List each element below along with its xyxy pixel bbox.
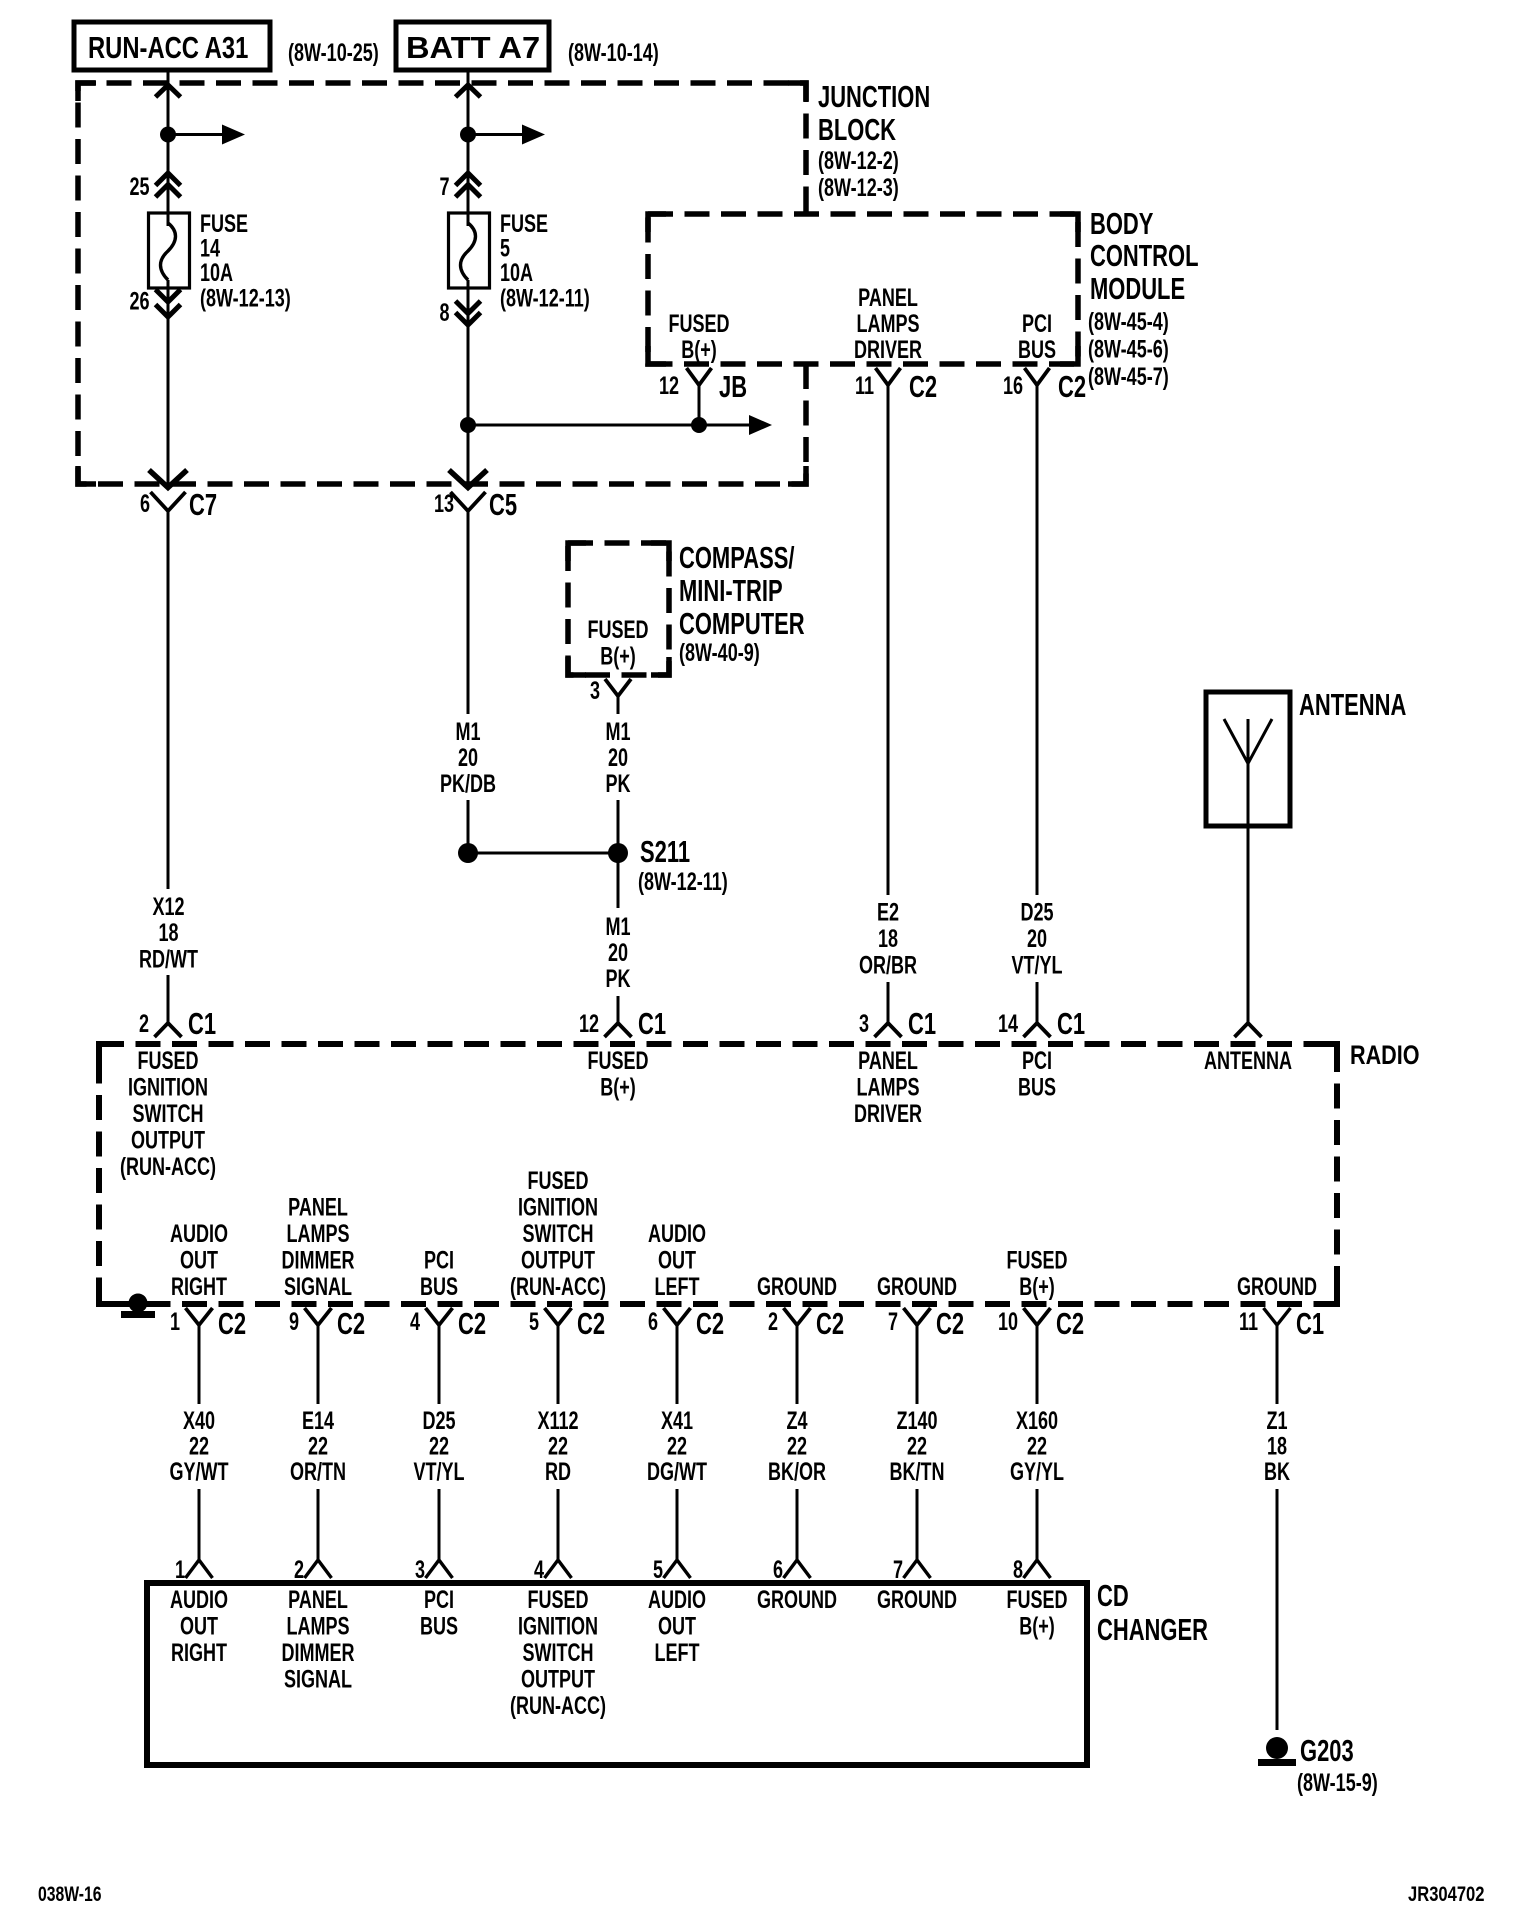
wire label X41 22 DG/WT: [647, 1406, 707, 1486]
svg-text:C7: C7: [189, 487, 217, 521]
CD pin label FUSED B(+): [1006, 1585, 1067, 1640]
svg-text:13: 13: [434, 489, 454, 518]
wire X160 22 GY/YL (upper): [1036, 1337, 1039, 1404]
svg-text:(RUN-ACC): (RUN-ACC): [120, 1152, 216, 1181]
svg-text:PANEL: PANEL: [858, 283, 918, 312]
svg-text:C2: C2: [696, 1306, 724, 1340]
svg-text:PCI: PCI: [424, 1585, 454, 1614]
connector C2 pin 16 (BCM): [1003, 368, 1086, 404]
CD pin label GROUND: [757, 1585, 837, 1614]
svg-text:10A: 10A: [200, 258, 233, 287]
svg-text:IGNITION: IGNITION: [518, 1612, 598, 1641]
connector C1 pin 12 (radio): [579, 1006, 666, 1040]
connector antenna (radio): [1235, 1023, 1262, 1037]
svg-text:7: 7: [893, 1555, 903, 1584]
svg-text:C1: C1: [188, 1006, 216, 1040]
svg-text:PCI: PCI: [424, 1246, 454, 1275]
radio pin label PCI BUS: [1018, 1046, 1056, 1101]
svg-text:12: 12: [659, 371, 679, 400]
svg-text:OUTPUT: OUTPUT: [131, 1126, 205, 1155]
svg-text:RD: RD: [545, 1457, 571, 1486]
svg-text:JB: JB: [719, 369, 747, 403]
wire X40 22 GY/WT (upper): [198, 1337, 201, 1404]
connector C1 pin 11 (radio bottom): [1239, 1306, 1324, 1340]
svg-text:DIMMER: DIMMER: [281, 1246, 354, 1275]
svg-text:3: 3: [415, 1555, 425, 1584]
wire X41 22 DG/WT (upper): [676, 1337, 679, 1404]
svg-text:BUS: BUS: [1018, 335, 1056, 364]
svg-text:OUTPUT: OUTPUT: [521, 1246, 595, 1275]
wire X160 22 GY/YL (lower): [1036, 1489, 1039, 1560]
wire between splices: [468, 852, 618, 855]
compass/mini-trip computer dashed box: [568, 543, 669, 675]
svg-text:PANEL: PANEL: [858, 1046, 918, 1075]
radio pin label PANEL LAMPS DRIVER: [854, 1046, 922, 1128]
svg-text:DRIVER: DRIVER: [854, 1099, 922, 1128]
fuse F5 label: [500, 209, 590, 312]
svg-text:6: 6: [140, 489, 150, 518]
wire label E14 22 OR/TN: [290, 1406, 346, 1486]
svg-text:8: 8: [1013, 1555, 1023, 1584]
ground G203 label: [1297, 1733, 1378, 1796]
svg-text:C5: C5: [489, 487, 517, 521]
body control module dashed box: [648, 214, 1078, 364]
svg-text:16: 16: [1003, 371, 1023, 400]
wire: [467, 135, 470, 227]
svg-text:FUSED: FUSED: [587, 615, 648, 644]
svg-text:FUSED: FUSED: [1006, 1585, 1067, 1614]
compass/mini-trip computer label: [679, 540, 805, 666]
node: S211 splice right: [608, 843, 628, 863]
connector pin 7 (CD changer): [893, 1555, 931, 1584]
svg-text:OR/TN: OR/TN: [290, 1457, 346, 1486]
svg-text:D25: D25: [1020, 898, 1053, 927]
wire label Z140 22 BK/TN: [889, 1406, 944, 1486]
svg-text:M1: M1: [455, 717, 480, 746]
CD changer label: [1097, 1578, 1208, 1646]
svg-text:B(+): B(+): [1019, 1612, 1055, 1641]
body control module label: [1088, 206, 1199, 390]
svg-text:VT/YL: VT/YL: [413, 1457, 464, 1486]
connector C1 pin 3 (radio): [859, 1006, 936, 1040]
radio pin label GROUND: [1237, 1272, 1317, 1301]
svg-text:C2: C2: [1056, 1306, 1084, 1340]
wire D25 20 VT/YL (upper): [1036, 385, 1039, 895]
svg-text:22: 22: [308, 1432, 328, 1461]
svg-text:LAMPS: LAMPS: [856, 309, 919, 338]
svg-text:ANTENNA: ANTENNA: [1204, 1046, 1292, 1075]
svg-text:OUT: OUT: [180, 1246, 218, 1275]
wire X112 22 RD (upper): [557, 1337, 560, 1404]
svg-text:AUDIO: AUDIO: [170, 1219, 228, 1248]
wire M1 20 PK below S211 (upper): [617, 853, 620, 908]
svg-text:IGNITION: IGNITION: [128, 1073, 208, 1102]
svg-text:(RUN-ACC): (RUN-ACC): [510, 1272, 606, 1301]
connector pin 5 (CD changer): [653, 1555, 691, 1584]
svg-text:X160: X160: [1016, 1406, 1058, 1435]
svg-text:RUN-ACC A31: RUN-ACC A31: [88, 30, 248, 65]
svg-text:CD: CD: [1097, 1578, 1129, 1612]
svg-text:4: 4: [410, 1307, 420, 1336]
svg-text:G203: G203: [1300, 1733, 1354, 1767]
wire label Z4 22 BK/OR: [768, 1406, 826, 1486]
reference (8W-10-25): [288, 38, 379, 67]
svg-text:RADIO: RADIO: [1350, 1041, 1420, 1071]
svg-text:BK/OR: BK/OR: [768, 1457, 826, 1486]
svg-text:6: 6: [648, 1307, 658, 1336]
svg-text:LAMPS: LAMPS: [856, 1073, 919, 1102]
wire X41 22 DG/WT (lower): [676, 1489, 679, 1560]
svg-text:3: 3: [590, 676, 600, 705]
svg-text:C1: C1: [638, 1006, 666, 1040]
svg-text:C2: C2: [458, 1306, 486, 1340]
svg-text:B(+): B(+): [1019, 1272, 1055, 1301]
svg-text:9: 9: [289, 1307, 299, 1336]
svg-text:(8W-12-11): (8W-12-11): [638, 867, 728, 896]
radio pin label FUSED IGNITION SWITCH OUTPUT (RUN-ACC): [120, 1046, 216, 1181]
junction block dashed box: [78, 83, 806, 484]
svg-text:(8W-12-2): (8W-12-2): [818, 146, 899, 175]
compass box pin label FUSED B(+): [587, 615, 648, 670]
wire E2 18 OR/BR (lower): [887, 982, 890, 1023]
svg-text:5: 5: [529, 1307, 539, 1336]
svg-text:C2: C2: [337, 1306, 365, 1340]
svg-text:COMPUTER: COMPUTER: [679, 606, 805, 640]
svg-text:S211: S211: [640, 834, 690, 868]
svg-text:LEFT: LEFT: [654, 1272, 699, 1301]
wire X40 22 GY/WT (lower): [198, 1489, 201, 1560]
svg-text:Z4: Z4: [786, 1406, 807, 1435]
svg-text:MODULE: MODULE: [1090, 271, 1185, 305]
svg-text:(8W-12-13): (8W-12-13): [200, 284, 291, 313]
connector C5 pin 13: [434, 487, 517, 523]
svg-text:D25: D25: [422, 1406, 455, 1435]
svg-text:25: 25: [129, 172, 149, 201]
fuse F5 10A: [449, 213, 490, 288]
body control module box corners: [648, 214, 1078, 364]
svg-text:PK: PK: [605, 964, 630, 993]
svg-text:20: 20: [1027, 924, 1047, 953]
svg-text:10A: 10A: [500, 258, 533, 287]
svg-text:DIMMER: DIMMER: [281, 1638, 354, 1667]
radio pin label PANEL LAMPS DIMMER SIGNAL: [281, 1193, 354, 1301]
connector pin 8 (CD changer): [1013, 1555, 1051, 1584]
svg-text:X12: X12: [152, 892, 184, 921]
svg-text:SWITCH: SWITCH: [522, 1219, 593, 1248]
wire M1 20 PK/DB (lower): [467, 800, 470, 853]
svg-text:B(+): B(+): [681, 335, 717, 364]
svg-text:BUS: BUS: [420, 1272, 458, 1301]
svg-text:20: 20: [608, 938, 628, 967]
radio pin label FUSED IGNITION SWITCH OUTPUT (RUN-ACC): [510, 1166, 606, 1301]
wire label M1 20 PK/DB: [440, 717, 496, 798]
radio dashed box: [99, 1044, 1337, 1304]
reference (8W-10-14): [568, 38, 659, 67]
svg-text:C2: C2: [218, 1306, 246, 1340]
svg-text:(8W-15-9): (8W-15-9): [1297, 1768, 1378, 1797]
connector pin 1 (CD changer): [175, 1555, 213, 1584]
wire X12 18 RD/WT (lower): [167, 975, 170, 1023]
svg-text:18: 18: [158, 918, 178, 947]
wire X112 22 RD (lower): [557, 1489, 560, 1560]
svg-text:IGNITION: IGNITION: [518, 1193, 598, 1222]
svg-text:BLOCK: BLOCK: [818, 112, 896, 146]
svg-text:20: 20: [608, 743, 628, 772]
svg-text:(8W-10-25): (8W-10-25): [288, 38, 379, 67]
svg-text:AUDIO: AUDIO: [170, 1585, 228, 1614]
wire label M1 20 PK: [605, 717, 630, 798]
power feed box BATT A7: [396, 22, 549, 70]
connector C7 pin 6: [140, 487, 217, 523]
connector C2 pin 6 (radio bottom): [648, 1306, 724, 1340]
sheet number 038W-16: [38, 1882, 102, 1906]
wire M1 20 PK (lower): [617, 800, 620, 853]
svg-text:PCI: PCI: [1022, 309, 1052, 338]
svg-text:JR304702: JR304702: [1408, 1883, 1485, 1906]
radio label: [1350, 1041, 1420, 1071]
BCM pin label FUSED B(+): [668, 309, 729, 364]
connector C2 pin 5 (radio bottom): [529, 1306, 605, 1340]
svg-text:22: 22: [907, 1432, 927, 1461]
svg-text:DG/WT: DG/WT: [647, 1457, 707, 1486]
svg-text:AUDIO: AUDIO: [648, 1585, 706, 1614]
wire Z1 18 BK (upper): [1276, 1337, 1279, 1404]
svg-text:PCI: PCI: [1022, 1046, 1052, 1075]
svg-text:DRIVER: DRIVER: [854, 335, 922, 364]
antenna lead wire: [1247, 826, 1250, 1023]
svg-text:22: 22: [1027, 1432, 1047, 1461]
svg-text:20: 20: [458, 743, 478, 772]
svg-text:RIGHT: RIGHT: [171, 1272, 227, 1301]
wire label X12 18 RD/WT: [139, 892, 198, 973]
svg-text:GROUND: GROUND: [757, 1585, 837, 1614]
svg-text:11: 11: [855, 371, 874, 400]
fuse F14 10A: [149, 213, 190, 288]
svg-text:COMPASS/: COMPASS/: [679, 540, 795, 574]
wire Z4 22 BK/OR (upper): [796, 1337, 799, 1404]
node: S211 splice left: [458, 843, 478, 863]
wire label D25 22 VT/YL: [413, 1406, 464, 1486]
CD pin label AUDIO OUT LEFT: [648, 1585, 706, 1667]
radio pin label AUDIO OUT LEFT: [648, 1219, 706, 1301]
connector pin 3 (compass): [590, 676, 631, 708]
svg-text:BUS: BUS: [1018, 1073, 1056, 1102]
svg-text:OUT: OUT: [180, 1612, 218, 1641]
connector C2 pin 2 (radio bottom): [768, 1306, 844, 1340]
wire label X112 22 RD: [537, 1406, 578, 1486]
antenna symbol: [1224, 719, 1272, 826]
svg-text:FUSED: FUSED: [1006, 1246, 1067, 1275]
svg-text:1: 1: [170, 1307, 180, 1336]
svg-text:E14: E14: [302, 1406, 334, 1435]
svg-text:7: 7: [439, 172, 449, 201]
svg-text:C2: C2: [577, 1306, 605, 1340]
svg-text:C1: C1: [908, 1006, 936, 1040]
svg-text:LEFT: LEFT: [654, 1638, 699, 1667]
svg-text:18: 18: [878, 924, 898, 953]
svg-text:C2: C2: [936, 1306, 964, 1340]
wire D25 20 VT/YL (lower): [1036, 982, 1039, 1023]
wire X12 18 RD/WT (upper): [167, 510, 170, 889]
wire label E2 18 OR/BR: [859, 898, 917, 980]
node: splice under JB pin 12: [691, 417, 707, 433]
wire D25 22 VT/YL (upper): [438, 1337, 441, 1404]
svg-text:OUT: OUT: [658, 1246, 696, 1275]
CD pin label GROUND: [877, 1585, 957, 1614]
antenna box: [1206, 692, 1290, 826]
wire label M1 20 PK below S211: [605, 912, 630, 993]
radio pin label GROUND: [757, 1272, 837, 1301]
svg-text:3: 3: [859, 1009, 869, 1038]
svg-text:(8W-45-4): (8W-45-4): [1088, 307, 1169, 336]
svg-text:1: 1: [175, 1555, 185, 1584]
svg-text:M1: M1: [605, 912, 630, 941]
svg-text:FUSED: FUSED: [137, 1046, 198, 1075]
svg-text:GROUND: GROUND: [757, 1272, 837, 1301]
arrow toward RUN-ACC A31: [156, 85, 181, 97]
svg-text:GROUND: GROUND: [877, 1272, 957, 1301]
connector pin 2 (CD changer): [294, 1555, 332, 1584]
svg-text:11: 11: [1239, 1307, 1258, 1336]
node: splice on RUN-ACC feed: [160, 127, 176, 143]
svg-text:SIGNAL: SIGNAL: [284, 1665, 352, 1694]
svg-text:22: 22: [429, 1432, 449, 1461]
svg-text:X41: X41: [661, 1406, 693, 1435]
compass box corners: [568, 543, 669, 675]
connector pin 4 (CD changer): [534, 1555, 572, 1584]
connector JB pin 12 (BCM): [659, 368, 747, 404]
svg-text:(8W-45-6): (8W-45-6): [1088, 335, 1169, 364]
arrow out of junction block: [449, 470, 487, 488]
svg-text:SWITCH: SWITCH: [132, 1099, 203, 1128]
ground G203: [1258, 1737, 1296, 1766]
svg-text:C1: C1: [1296, 1306, 1324, 1340]
svg-text:22: 22: [667, 1432, 687, 1461]
radio pin label AUDIO OUT RIGHT: [170, 1219, 228, 1301]
svg-text:C1: C1: [1057, 1006, 1085, 1040]
svg-text:GROUND: GROUND: [1237, 1272, 1317, 1301]
svg-text:6: 6: [773, 1555, 783, 1584]
svg-text:X112: X112: [537, 1406, 578, 1435]
svg-text:BODY: BODY: [1090, 206, 1154, 240]
svg-text:2: 2: [294, 1555, 304, 1584]
wire E14 22 OR/TN (upper): [317, 1337, 320, 1404]
svg-text:PANEL: PANEL: [288, 1193, 348, 1222]
svg-text:26: 26: [129, 287, 149, 316]
svg-text:X40: X40: [183, 1406, 215, 1435]
connector C2 pin 10 (radio bottom): [998, 1306, 1084, 1340]
svg-text:LAMPS: LAMPS: [286, 1219, 349, 1248]
svg-text:2: 2: [768, 1307, 778, 1336]
svg-text:GROUND: GROUND: [877, 1585, 957, 1614]
svg-text:RD/WT: RD/WT: [139, 945, 198, 974]
wire label D25 20 VT/YL: [1011, 898, 1062, 980]
radio pin label FUSED B(+): [1006, 1246, 1067, 1301]
wire D25 22 VT/YL (lower): [438, 1489, 441, 1560]
arrow out of junction block: [149, 470, 187, 488]
svg-text:038W-16: 038W-16: [38, 1882, 102, 1906]
svg-text:FUSED: FUSED: [527, 1585, 588, 1614]
svg-text:FUSED: FUSED: [527, 1166, 588, 1195]
svg-text:B(+): B(+): [600, 642, 636, 671]
splice S211 label: [638, 834, 728, 895]
inline connector pin 25: [129, 172, 180, 201]
radio pin label GROUND: [877, 1272, 957, 1301]
svg-text:12: 12: [579, 1009, 599, 1038]
svg-text:C2: C2: [1058, 369, 1086, 403]
connector C2 pin 9 (radio bottom): [289, 1306, 365, 1340]
svg-text:B(+): B(+): [600, 1073, 636, 1102]
connector pin 3 (CD changer): [415, 1555, 453, 1584]
BCM pin label PANEL LAMPS DRIVER: [854, 283, 922, 364]
wire from BCM pin 12 to splice: [698, 385, 701, 425]
CD changer box: [147, 1583, 1087, 1765]
svg-text:BK: BK: [1264, 1457, 1290, 1486]
svg-text:22: 22: [548, 1432, 568, 1461]
arrow toward BATT A7: [456, 85, 481, 97]
wire label Z1 18 BK: [1264, 1406, 1290, 1486]
connector pin 6 (CD changer): [773, 1555, 811, 1584]
svg-text:PK/DB: PK/DB: [440, 769, 496, 798]
drawing number JR304702: [1408, 1883, 1485, 1906]
svg-text:CONTROL: CONTROL: [1090, 238, 1199, 272]
svg-text:RIGHT: RIGHT: [171, 1638, 227, 1667]
svg-text:SWITCH: SWITCH: [522, 1638, 593, 1667]
svg-text:BUS: BUS: [420, 1612, 458, 1641]
wire M1 20 PK/DB (upper): [467, 510, 470, 714]
svg-text:(8W-45-7): (8W-45-7): [1088, 362, 1169, 391]
svg-text:BATT A7: BATT A7: [406, 30, 540, 65]
radio pin label FUSED B(+): [587, 1046, 648, 1101]
svg-text:22: 22: [787, 1432, 807, 1461]
svg-text:18: 18: [1267, 1432, 1287, 1461]
wire down to junction block edge: [167, 280, 170, 486]
svg-text:GY/YL: GY/YL: [1010, 1457, 1064, 1486]
svg-text:Z1: Z1: [1266, 1406, 1287, 1435]
svg-text:(8W-40-9): (8W-40-9): [679, 638, 760, 667]
wire from BATT A7 into junction block: [467, 70, 470, 135]
svg-text:OR/BR: OR/BR: [859, 951, 917, 980]
fuse F14 label: [200, 209, 291, 312]
svg-text:CHANGER: CHANGER: [1097, 1612, 1208, 1646]
connector C2 pin 7 (radio bottom): [888, 1306, 964, 1340]
wire M1 20 PK (upper): [617, 696, 620, 714]
branch arrow to other circuits: [468, 125, 545, 145]
svg-text:PK: PK: [605, 769, 630, 798]
svg-text:E2: E2: [877, 898, 899, 927]
svg-text:OUTPUT: OUTPUT: [521, 1665, 595, 1694]
node: fused B(+) splice: [460, 417, 476, 433]
svg-text:M1: M1: [605, 717, 630, 746]
svg-text:(8W-12-3): (8W-12-3): [818, 173, 899, 202]
radio pin label PCI BUS: [420, 1246, 458, 1301]
svg-text:C2: C2: [909, 369, 937, 403]
inline connector pin 26: [129, 287, 180, 317]
wire E2 18 OR/BR (upper): [887, 385, 890, 895]
svg-text:GY/WT: GY/WT: [169, 1457, 228, 1486]
svg-text:(RUN-ACC): (RUN-ACC): [510, 1691, 606, 1720]
wire Z4 22 BK/OR (lower): [796, 1489, 799, 1560]
BCM pin label PCI BUS: [1018, 309, 1056, 364]
branch arrow to other circuits: [168, 125, 245, 145]
branch arrow to other circuits: [699, 415, 772, 435]
svg-text:4: 4: [534, 1555, 544, 1584]
svg-text:7: 7: [888, 1307, 898, 1336]
wire Z140 22 BK/TN (upper): [916, 1337, 919, 1404]
wire M1 20 PK below S211 (lower): [617, 996, 620, 1023]
CD pin label FUSED IGNITION SWITCH OUTPUT (RUN-ACC): [510, 1585, 606, 1720]
node: splice on BATT feed: [460, 127, 476, 143]
